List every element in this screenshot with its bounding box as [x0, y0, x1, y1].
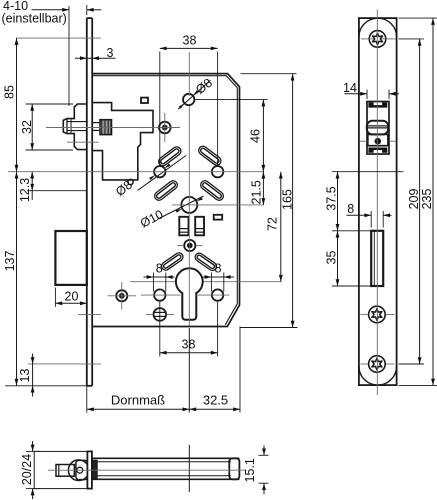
slot left above cylinder — [166, 257, 179, 266]
slotted screw below-left of cylinder — [154, 308, 167, 321]
extension lines 14 — [366, 90, 368, 100]
extension lines 165 — [241, 73, 297, 75]
leader line and label dia 8 left — [138, 156, 186, 191]
extension lines 15.1 — [259, 454, 269, 456]
extension line hole top right — [195, 99, 268, 101]
bottom view handle spindle shaft — [56, 465, 74, 477]
profile cylinder punching (keyhole) — [176, 268, 203, 320]
svg-text:20/24: 20/24 — [20, 454, 34, 485]
slot right above cylinder — [199, 257, 212, 266]
svg-text:35: 35 — [324, 251, 338, 265]
svg-text:235: 235 — [420, 189, 434, 210]
extension lines 20/24 — [26, 450, 40, 452]
centerline bottom fixing screw y=314.4 — [78, 314, 101, 316]
svg-text:137: 137 — [3, 251, 17, 272]
follower / latch guide internal outline — [93, 103, 154, 180]
main front view: lock case outline with chamfered right corners — [92, 74, 239, 327]
svg-text:85: 85 — [2, 85, 16, 99]
latch side view upper bracket — [368, 102, 387, 107]
svg-text:8: 8 — [347, 202, 354, 216]
latch head side view (rounded block) — [367, 121, 388, 135]
latch lower block — [368, 134, 388, 145]
hole left of cylinder — [154, 289, 165, 300]
svg-text:(einstellbar): (einstellbar) — [2, 12, 67, 26]
centerline middle screw right view — [361, 314, 369, 316]
deadbolt front view — [55, 231, 86, 285]
extension line deadbolt cutout bottom — [332, 285, 371, 287]
bottom view centerline — [48, 469, 247, 471]
handle follower hole dia 10 — [181, 197, 197, 213]
centerline follower holes y=171.7 — [8, 171, 264, 173]
svg-text:13: 13 — [18, 369, 32, 383]
svg-text:21.5: 21.5 — [250, 180, 264, 204]
extension line faceplate front above — [86, 5, 88, 15]
extension line 12.3 bottom — [27, 190, 87, 192]
centerline cylinder flank holes y=295.1 — [141, 294, 181, 296]
extension lines 38 top — [159, 52, 161, 166]
svg-text:46: 46 — [249, 129, 263, 143]
extension line deadbolt cutout top — [332, 230, 371, 232]
svg-text:20: 20 — [65, 290, 79, 304]
pivot screw lower left area — [116, 290, 127, 301]
centerline bottom screw right view — [361, 363, 369, 365]
latch bolt nose split lines — [66, 119, 68, 134]
svg-text:14: 14 — [343, 81, 357, 95]
small rectangular hole right of follower — [214, 215, 223, 220]
left hole dia 8 at follower line — [154, 166, 165, 177]
leader line and label dia 8 top — [178, 80, 211, 109]
latch pin — [375, 139, 380, 144]
bottom view case body — [92, 457, 240, 459]
cross-recess screw in case upper area — [159, 122, 171, 134]
extension line latch tip — [68, 6, 70, 106]
centerline handle follower y=204.9 — [172, 204, 264, 206]
two rectangular holes below follower — [179, 217, 188, 236]
extension line faceplate bottom — [5, 385, 92, 387]
top hole dia 8 — [183, 94, 194, 105]
svg-text:15.1: 15.1 — [243, 458, 257, 482]
slot lower-right of follower — [205, 185, 219, 196]
extension lines 32 — [26, 103, 74, 105]
cross-recess screw above cylinder — [184, 240, 195, 251]
latch cutout in faceplate — [367, 102, 389, 155]
centerline top screw right view — [361, 38, 374, 40]
right hole at follower line — [212, 166, 223, 177]
centerline bottom screw height y=363.9 — [28, 363, 101, 365]
small rectangular hole top area — [141, 98, 148, 103]
vertical centerline continues through bottom view — [188, 445, 190, 492]
bottom view case front dark strip — [92, 460, 97, 478]
svg-text:12.3: 12.3 — [18, 178, 32, 202]
vertical centerline right view — [376, 10, 378, 396]
latch adjusting knurled wheel — [100, 120, 112, 135]
svg-text:72: 72 — [266, 217, 280, 231]
bottom view faceplate bar — [87, 451, 92, 488]
extension lines 38 bottom — [159, 302, 161, 357]
svg-text:32.5: 32.5 — [203, 393, 228, 408]
bottom view: faceplate width envelope box — [34, 451, 87, 488]
slot upper-right of follower — [203, 151, 217, 161]
rounded end arc bottom — [359, 366, 397, 385]
top fixing screw (torx) — [369, 31, 386, 48]
svg-text:Ø10: Ø10 — [138, 207, 165, 230]
extension lines 8 right view — [370, 211, 372, 228]
bottom view follower body — [76, 460, 88, 479]
centerline top screw height y=38 — [16, 37, 101, 39]
pivot pin on guide lower edge — [128, 179, 133, 184]
vertical centerline through cylinder axis — [188, 52, 190, 96]
bottom fixing screw (torx) — [369, 356, 386, 373]
svg-text:38: 38 — [183, 33, 197, 47]
lock case inner cover plate line — [92, 76, 237, 325]
centerline latch axis — [46, 127, 155, 129]
hole right of cylinder — [212, 289, 223, 300]
leader line and label dia 10 — [157, 196, 204, 220]
rounded end arc top — [359, 18, 397, 37]
svg-text:38: 38 — [182, 337, 196, 351]
svg-text:8: 8 — [156, 262, 163, 276]
deadbolt cutout in faceplate — [371, 231, 383, 286]
extension line follower height into right view — [332, 171, 403, 173]
extension lines 209 — [399, 38, 425, 40]
short centerline below latch — [67, 141, 99, 143]
svg-text:Dornmaß: Dornmaß — [111, 393, 165, 408]
right view faceplate outline — [359, 18, 397, 385]
slot upper-left of follower — [163, 151, 177, 161]
middle fixing screw (torx) — [369, 306, 386, 323]
bottom view case end cap — [229, 458, 239, 479]
extension lines deadbolt — [54, 288, 56, 307]
centerline cylinder y=281.7 — [130, 281, 175, 283]
extension lines Dornmass — [86, 386, 88, 413]
slot lower-left of follower — [159, 185, 173, 196]
latch shaft between faceplate and wheel — [92, 122, 100, 124]
faceplate (Stulp) front view, 3mm thick — [86, 18, 88, 386]
latch bolt head protruding left of faceplate — [63, 104, 87, 150]
svg-text:Ø8: Ø8 — [113, 178, 135, 199]
svg-text:37.5: 37.5 — [324, 186, 338, 210]
svg-text:Ø8: Ø8 — [193, 76, 215, 97]
bottom view follower hub circle — [68, 460, 89, 481]
latch side view lower bracket — [368, 148, 387, 153]
extension lines 235 — [399, 17, 437, 19]
svg-text:8: 8 — [215, 262, 222, 276]
